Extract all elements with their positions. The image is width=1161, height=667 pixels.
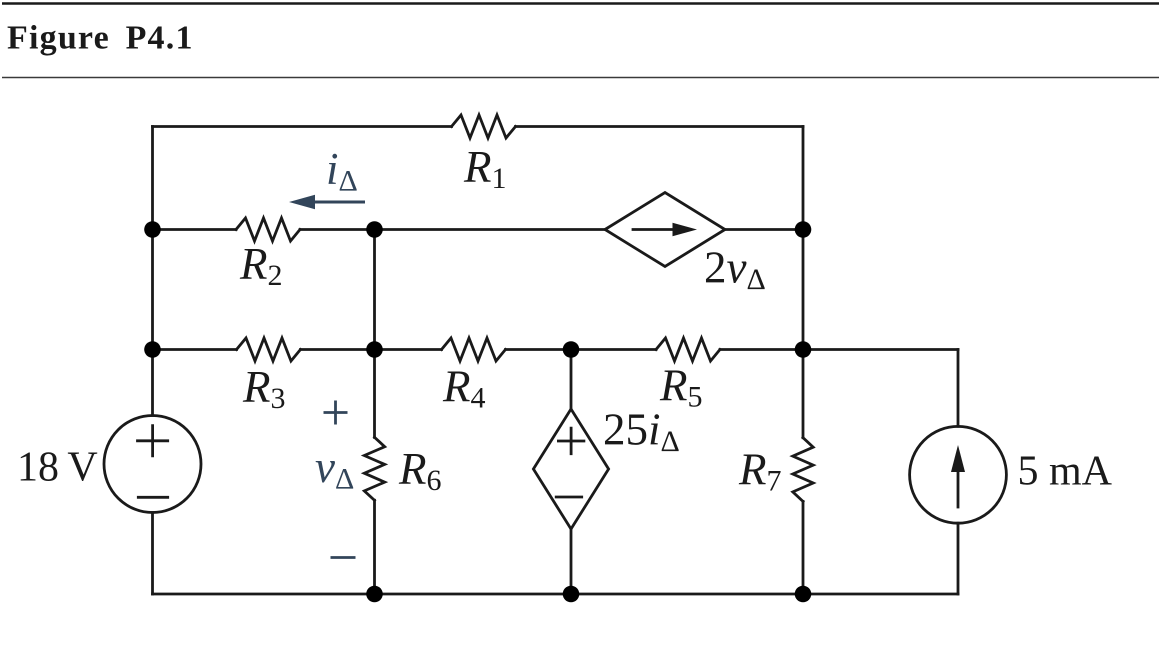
V1 minus sign [138,496,167,499]
svg-text:R6: R6 [398,444,442,497]
wire column2 lower [373,500,376,594]
bottom wire [153,593,959,596]
svg-text:2vΔ: 2vΔ [704,243,766,297]
iD current arrow [312,201,365,204]
wire left rail lower [151,513,154,595]
node bottom col3 [563,586,580,603]
node bottom right rail [795,586,812,603]
svg-text:R3: R3 [242,362,286,415]
node row3 left [144,341,161,358]
node row3 col2 [366,341,383,358]
current source I1 5mA circle [910,426,1007,523]
wire left rail upper [151,127,154,416]
svg-text:iΔ: iΔ [326,144,358,198]
2vD arrow [633,228,677,231]
I1 arrow shaft [957,468,960,507]
resistor R3 [237,338,301,361]
resistor R4 [442,338,506,361]
resistor R1 [452,115,516,138]
node row2 col2 [366,221,383,238]
wire row3 seg1 [153,348,237,351]
wire column3 lower [570,529,573,594]
svg-text:R1: R1 [463,142,507,195]
svg-text:18 V: 18 V [17,445,98,491]
resistor R2 [236,218,300,241]
label vD polarity plus [324,401,348,425]
wire column3 upper [570,350,573,410]
label vD polarity minus [331,556,356,559]
wire right rail upper [802,127,805,438]
top document rule [2,2,1159,5]
svg-text:R2: R2 [239,239,283,292]
node bottom col2 [366,586,383,603]
svg-text:R7: R7 [738,445,782,498]
wire row2 right [725,228,803,231]
resistor R5 [656,338,720,361]
svg-text:25iΔ: 25iΔ [603,405,680,459]
V1 plus sign [138,426,168,456]
svg-text:R4: R4 [442,362,486,415]
wire row3 to far right [803,348,958,351]
dependent source 25iD diamond [533,409,608,529]
voltage source V1 18V circle [104,416,201,513]
svg-text:5 mA: 5 mA [1018,449,1113,495]
divider rule [2,77,1159,79]
wire row3 seg3 [506,348,657,351]
svg-text:Figure P4.1: Figure P4.1 [7,20,194,57]
node row3 right rail [795,341,812,358]
wire row3 seg2 [301,348,442,351]
resistor R7 [793,438,813,502]
wire top left segment [153,125,452,128]
svg-text:R5: R5 [659,361,703,414]
wire row2 middle [300,228,605,231]
wire column2 upper [373,230,376,438]
node row2 right rail [795,221,812,238]
wire right rail lower [802,501,805,594]
node row3 col3 [563,341,580,358]
dependent source 2vD diamond [605,193,725,267]
svg-text:vΔ: vΔ [315,442,354,496]
wire top right segment [516,125,804,128]
resistor R6 [364,437,384,500]
wire far right upper [957,350,960,427]
25iD minus sign [556,496,582,499]
I1 arrow head [951,445,965,472]
node row2 left [144,221,161,238]
wire row2 left [153,228,237,231]
25iD plus sign [558,428,584,454]
wire far right lower [957,523,960,594]
wire row3 seg4 [720,348,803,351]
